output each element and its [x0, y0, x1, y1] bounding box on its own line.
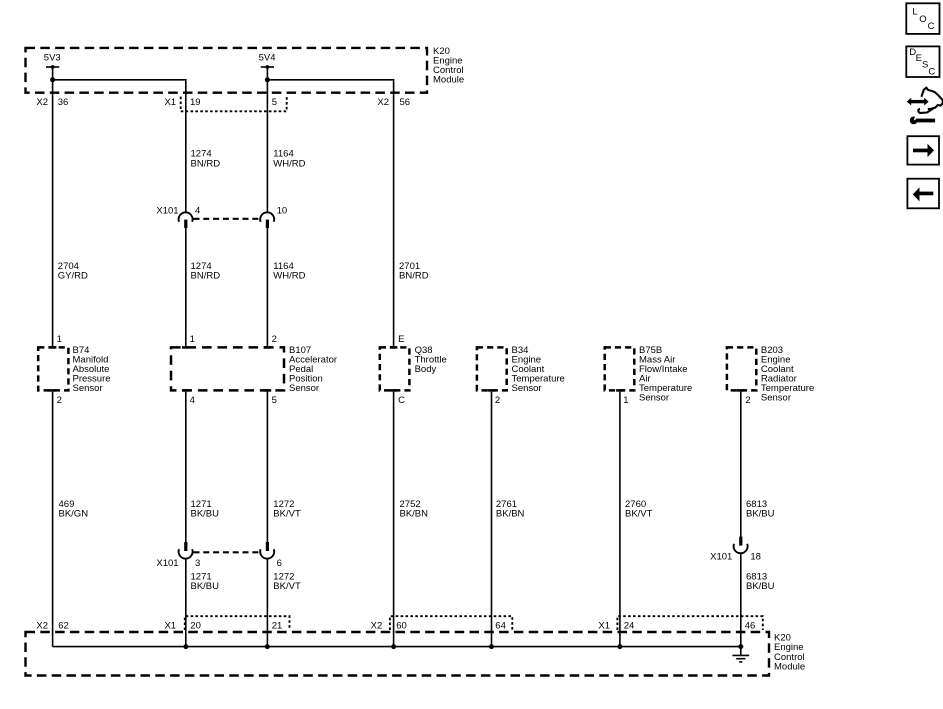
- node: bus junction pin 20: [183, 644, 188, 649]
- svg-text:19: 19: [190, 97, 201, 108]
- icon: DESC button: [906, 46, 939, 77]
- ECM bottom connector label X2 pin 62: [36, 620, 68, 631]
- svg-text:WH/RD: WH/RD: [273, 271, 305, 282]
- svg-text:BN/RD: BN/RD: [191, 158, 221, 169]
- wire: B203 pin 2 down to X101 pin 18: [740, 392, 742, 537]
- wire label 2760 BK/VT: [625, 499, 653, 520]
- svg-text:BK/GN: BK/GN: [59, 509, 89, 520]
- ECM bottom connector label X2 pin 60: [371, 620, 407, 631]
- B107 label: [289, 345, 337, 394]
- wire: X101 pin 3 down to ECM X1 pin 20: [185, 558, 187, 646]
- svg-text:Module: Module: [433, 75, 464, 86]
- component B34 Engine Coolant Temperature Sensor dashed box: [477, 347, 507, 390]
- svg-text:Sensor: Sensor: [512, 383, 542, 394]
- svg-text:O: O: [919, 14, 926, 25]
- node: 5V3 junction: [50, 77, 55, 82]
- wire: X101 pin 18 down to ECM pin 46: [740, 553, 742, 655]
- wire label 2752 BK/BN: [400, 499, 429, 520]
- svg-text:2: 2: [57, 395, 62, 406]
- node: 5V4 junction: [265, 77, 270, 82]
- svg-text:46: 46: [745, 620, 756, 631]
- svg-text:GY/RD: GY/RD: [58, 271, 88, 282]
- inline connector X101 pin 3: [179, 542, 193, 559]
- ECM K20 module top dashed box: [26, 48, 428, 93]
- component Q38 Throttle Body dashed box: [380, 347, 410, 390]
- wire: X101 pin 10 down to B107 pin 2: [266, 228, 268, 346]
- wire label 1274 BN/RD (upper): [191, 149, 221, 170]
- connector X1 grouping dotted box (bottom pins 24-46): [617, 616, 762, 630]
- wire label 469 BK/GN: [59, 499, 89, 520]
- svg-text:Sensor: Sensor: [73, 383, 103, 394]
- K20 Engine Control Module label (top): [433, 46, 464, 85]
- inline connector X101 pin 10: [260, 212, 274, 228]
- node: bus junction pin 21: [265, 644, 270, 649]
- node: bus junction pin 60: [391, 644, 396, 649]
- component B203 Engine Coolant Radiator Temperature Sensor dashed box: [727, 347, 756, 390]
- svg-text:X101: X101: [710, 551, 732, 562]
- wire: 5V3 down to B74 pin 1: [52, 67, 54, 346]
- node: bus junction pin 24: [617, 644, 622, 649]
- wire: B75B pin 1 down to ECM X1 pin 24: [619, 392, 621, 647]
- svg-text:L: L: [912, 7, 917, 18]
- 5V3 voltage reference: [44, 52, 61, 69]
- svg-text:36: 36: [58, 97, 69, 108]
- svg-text:4: 4: [195, 205, 200, 216]
- wire: X101 pin 6 down to ECM X1 pin 21: [266, 558, 268, 646]
- icon: repair/diagnostic (double arrow, panel outline, wrench): [907, 88, 943, 125]
- svg-text:Body: Body: [415, 364, 437, 375]
- K20 Engine Control Module label (bottom): [774, 633, 805, 673]
- wire label 1274 BN/RD (lower): [191, 261, 221, 282]
- node: bus junction pin 64: [489, 644, 494, 649]
- wire-to-box tee marks: [49, 346, 57, 349]
- svg-text:E: E: [916, 53, 922, 64]
- svg-text:62: 62: [58, 620, 69, 631]
- wire: B34 pin 2 down to ECM pin 64: [491, 392, 493, 647]
- inline connector X101 pin 18: [734, 537, 748, 554]
- svg-text:E: E: [398, 334, 404, 345]
- svg-text:5V3: 5V3: [44, 52, 61, 63]
- wire label 6813 BK/BU (lower): [746, 571, 775, 592]
- component B107 Accelerator Pedal Position Sensor dashed box: [171, 347, 284, 390]
- svg-text:4: 4: [190, 395, 195, 406]
- svg-text:64: 64: [495, 620, 506, 631]
- svg-text:1: 1: [190, 334, 195, 345]
- wire label 2704 GY/RD: [58, 261, 88, 282]
- svg-text:BK/VT: BK/VT: [273, 509, 301, 520]
- ECM K20 module bottom dashed box: [26, 632, 770, 676]
- inline connector X101 pin 6: [260, 542, 274, 559]
- svg-text:X2: X2: [371, 620, 383, 631]
- inline connector X101 pin 4: [179, 212, 193, 228]
- wire: internal ground bus: [53, 646, 741, 648]
- B75B label: [639, 345, 692, 404]
- icon: LOC button: [906, 3, 939, 34]
- wire: B74 pin 2 down to ECM X2 pin 62: [52, 392, 54, 647]
- ECM bottom connector label X1 pin 20: [164, 620, 200, 631]
- wire: B107 pin 4 down to X101 pin 3: [185, 392, 187, 543]
- svg-text:20: 20: [190, 620, 201, 631]
- svg-text:1: 1: [623, 395, 628, 406]
- svg-text:Sensor: Sensor: [639, 393, 669, 404]
- X101 harness dashed link (top): [194, 218, 261, 220]
- svg-text:1: 1: [57, 334, 62, 345]
- Q38 label: [415, 345, 447, 375]
- svg-text:BK/BU: BK/BU: [746, 581, 775, 592]
- svg-text:X2: X2: [36, 620, 48, 631]
- svg-text:3: 3: [195, 558, 200, 569]
- icon: next arrow button: [907, 136, 939, 164]
- svg-text:BN/RD: BN/RD: [399, 271, 429, 282]
- svg-text:Module: Module: [774, 661, 805, 672]
- svg-text:X2: X2: [377, 97, 389, 108]
- wire label 1164 WH/RD (lower): [273, 261, 305, 282]
- wire label 6813 BK/BU (upper): [746, 499, 775, 520]
- svg-text:BK/BU: BK/BU: [191, 581, 220, 592]
- wire: B107 pin 5 down to X101 pin 6: [266, 392, 268, 543]
- ECM top connector label X2 pin 56: [377, 97, 410, 108]
- wire: 5V3 branch to ECM X1 pin 19 down to X101 pin 4: [53, 80, 186, 213]
- svg-text:Sensor: Sensor: [289, 383, 319, 394]
- X101 harness dashed link (bottom): [194, 551, 261, 553]
- ECM top connector label X2 pin 36: [36, 97, 68, 108]
- ECM top connector label X1 pin 19: [164, 97, 200, 108]
- wire label 1271 BK/BU (upper): [191, 499, 220, 520]
- svg-text:5: 5: [272, 97, 277, 108]
- svg-text:C: C: [928, 67, 935, 78]
- svg-text:X101: X101: [156, 558, 178, 569]
- wire label 2761 BK/BN: [496, 499, 525, 520]
- svg-text:5: 5: [272, 395, 277, 406]
- ground symbol: [732, 655, 749, 662]
- node: bus junction pin 46: [738, 644, 743, 649]
- svg-text:X1: X1: [164, 620, 176, 631]
- svg-text:10: 10: [277, 205, 288, 216]
- svg-text:X2: X2: [36, 97, 48, 108]
- svg-text:BN/RD: BN/RD: [191, 271, 221, 282]
- svg-text:WH/RD: WH/RD: [273, 158, 305, 169]
- svg-text:2: 2: [272, 334, 277, 345]
- svg-text:C: C: [928, 21, 935, 32]
- svg-text:BK/BU: BK/BU: [746, 509, 775, 520]
- svg-text:BK/BN: BK/BN: [400, 509, 429, 520]
- svg-text:60: 60: [396, 620, 407, 631]
- svg-text:X1: X1: [164, 97, 176, 108]
- icon: back arrow button: [907, 179, 939, 209]
- B34 label: [512, 345, 565, 394]
- wire: 5V4 down to X101 pin 10: [266, 67, 268, 213]
- connector X1 grouping dotted box (top): [181, 97, 287, 112]
- connector X2 grouping dotted box (bottom pins 60-64): [390, 616, 512, 630]
- svg-text:BK/BN: BK/BN: [496, 509, 525, 520]
- wire label 1272 BK/VT (upper): [273, 499, 301, 520]
- 5V4 voltage reference: [259, 52, 276, 69]
- svg-text:6: 6: [277, 558, 282, 569]
- svg-text:Sensor: Sensor: [761, 393, 791, 404]
- wire label 1164 WH/RD (upper): [273, 149, 305, 170]
- ECM bottom connector label X1 pin 24: [598, 620, 634, 631]
- svg-text:BK/BU: BK/BU: [191, 509, 220, 520]
- svg-text:5V4: 5V4: [259, 52, 276, 63]
- svg-text:BK/VT: BK/VT: [273, 581, 301, 592]
- svg-text:21: 21: [272, 620, 283, 631]
- svg-text:S: S: [922, 60, 928, 71]
- B74 label: [73, 345, 111, 394]
- wire label 2701 BN/RD: [399, 261, 429, 282]
- component B74 Manifold Absolute Pressure Sensor dashed box: [38, 347, 68, 390]
- B203 label: [761, 345, 814, 404]
- svg-text:X1: X1: [598, 620, 610, 631]
- svg-text:2: 2: [745, 395, 750, 406]
- svg-text:18: 18: [750, 551, 761, 562]
- svg-text:X101: X101: [156, 205, 178, 216]
- wire label 1271 BK/BU (lower): [191, 571, 220, 592]
- wire: Q38 pin C down to ECM X2 pin 60: [393, 392, 395, 647]
- svg-text:C: C: [398, 395, 405, 406]
- connector X1 grouping dotted box (bottom pins 20-21): [185, 616, 290, 630]
- svg-text:BK/VT: BK/VT: [625, 509, 653, 520]
- wire: X101 pin 4 down to B107 pin 1: [185, 228, 187, 346]
- svg-text:24: 24: [624, 620, 635, 631]
- wire label 1272 BK/VT (lower): [273, 571, 301, 592]
- component B75B Mass Air Flow/Intake Air Temperature Sensor dashed box: [605, 347, 635, 390]
- svg-text:56: 56: [400, 97, 411, 108]
- wire: 5V4 branch to ECM X2 pin 56 down to Q38 pin E: [267, 80, 393, 346]
- svg-text:2: 2: [495, 395, 500, 406]
